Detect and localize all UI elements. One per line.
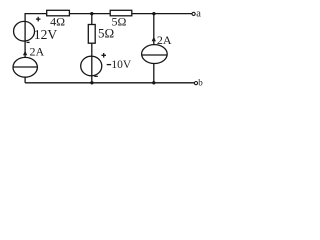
junction node3 dot (V2 bottom) [90, 81, 93, 84]
wire middle branch lower: R3 through V2 to bottom rail [91, 43, 93, 83]
svg-text:5Ω: 5Ω [98, 26, 114, 41]
svg-text:10V: 10V [111, 59, 131, 71]
wire bottom rail [25, 82, 194, 84]
junction node1 dot [90, 12, 93, 15]
label -10V minus dash [107, 64, 111, 66]
V2 plus sign [101, 53, 106, 58]
resistor R3 5Ω box [88, 25, 95, 44]
terminal b circle [194, 82, 197, 85]
resistor R2 5Ω box [110, 10, 132, 16]
resistor R1 4Ω box [47, 10, 70, 16]
svg-text:b: b [198, 77, 203, 87]
svg-text:4Ω: 4Ω [50, 15, 65, 29]
V1 plus sign [36, 17, 41, 22]
svg-text:12V: 12V [34, 27, 58, 42]
arrow of current source I2 [152, 36, 156, 41]
wire right branch upper: node2 to I2 [153, 14, 155, 45]
arrow of current source I1 [23, 50, 27, 55]
voltage source V1 12V circle [14, 21, 35, 41]
wire right branch lower: I2 bottom to bottom rail [153, 63, 155, 82]
wire top rail: R1 to R2 [69, 13, 110, 15]
current source I2 bar [142, 54, 168, 56]
voltage source V2 -10V circle [81, 56, 102, 76]
junction node4 dot (I2 bottom) [152, 81, 155, 84]
V1 minus sign [27, 41, 30, 43]
wire top rail: R2 to terminal a [132, 13, 192, 15]
wire left branch lower: I1 bottom to bottom rail [24, 77, 26, 83]
current source I1 2A circle [13, 57, 37, 77]
V2 minus sign [94, 75, 98, 77]
junction node2 dot [152, 12, 155, 15]
wire top rail: corner to R1 [25, 14, 47, 58]
current source I1 bar [13, 66, 37, 68]
terminal a circle [192, 12, 195, 15]
current source I2 2A circle [142, 45, 168, 64]
svg-text:a: a [196, 9, 201, 20]
wire middle branch upper: node1 to R3 [91, 14, 93, 25]
svg-text:2A: 2A [30, 45, 45, 59]
svg-text:2A: 2A [157, 33, 172, 47]
